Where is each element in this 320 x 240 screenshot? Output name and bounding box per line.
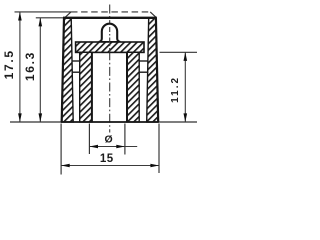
svg-text:Ø: Ø	[105, 134, 113, 146]
svg-text:15: 15	[100, 153, 114, 165]
centerline (vertical axis, dash-dot)	[109, 5, 111, 133]
phantom dashed top line (cap height 17.5 level)	[71, 11, 151, 13]
svg-text:16.3: 16.3	[23, 51, 37, 81]
hub tube right wall (hatched)	[127, 52, 139, 122]
rib box left (between skirt and hub)	[72, 60, 81, 62]
knob outer left wall (hatched)	[62, 18, 73, 122]
dome centerline dash	[109, 27, 111, 53]
shaft hole diameter extension lines	[88, 124, 90, 155]
hub tube left wall (hatched)	[80, 52, 92, 122]
hub flange bar (hatched)	[76, 42, 144, 52]
bottom extension line (right of knob, for 11.2)	[158, 121, 197, 123]
spring dome on flange	[99, 24, 121, 42]
knob top face	[63, 17, 157, 19]
extension line 16.3 (top face extended left)	[36, 17, 64, 19]
knob outer right wall (hatched)	[147, 18, 159, 122]
dimension line 15	[61, 165, 159, 167]
right corner phantom tick	[150, 12, 156, 17]
bottom extension line (left of knob)	[10, 121, 61, 123]
knob bottom edge	[61, 121, 159, 123]
extension line 17.5 (solid part, left of knob)	[15, 11, 72, 13]
right wall outer edge	[156, 18, 158, 122]
shaft hole right edge	[126, 52, 128, 122]
extension line 11.2 top (hole ceiling level)	[160, 51, 198, 53]
dimension line 17.5	[19, 12, 21, 122]
svg-text:17.5: 17.5	[2, 49, 16, 79]
left corner phantom tick	[65, 12, 71, 17]
dimension line 16.3	[39, 18, 41, 122]
dimension line diameter	[89, 146, 137, 148]
left wall outer edge	[62, 18, 64, 122]
outer diameter 15 extension lines	[60, 124, 62, 175]
dimension line 11.2	[184, 52, 186, 122]
rib box right	[139, 60, 148, 62]
shaft hole left edge	[91, 52, 93, 122]
svg-text:11.2: 11.2	[170, 76, 181, 103]
